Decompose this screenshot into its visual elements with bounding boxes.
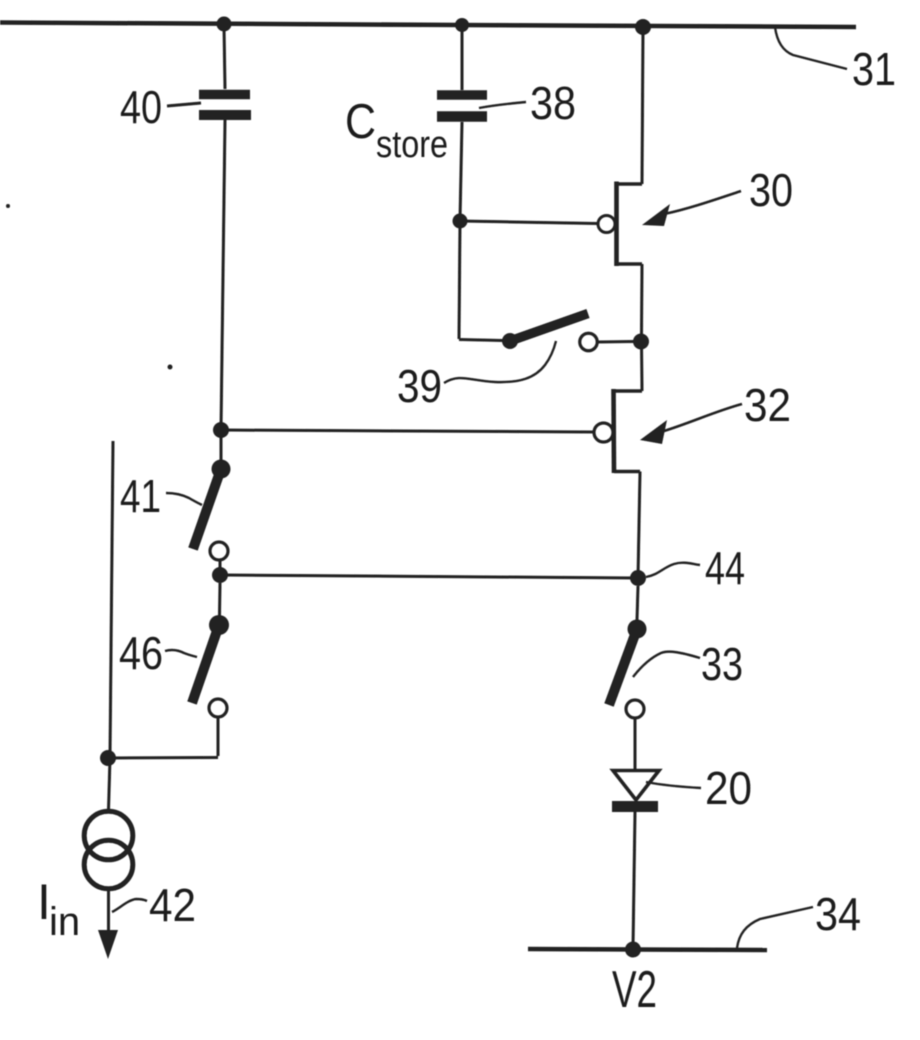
svg-text:38: 38	[530, 77, 576, 129]
svg-text:32: 32	[744, 379, 791, 431]
svg-text:30: 30	[749, 164, 793, 216]
svg-text:in: in	[49, 900, 80, 944]
svg-text:20: 20	[705, 762, 752, 814]
svg-text:V2: V2	[612, 961, 657, 1019]
svg-text:39: 39	[397, 360, 442, 412]
svg-text:31: 31	[852, 43, 896, 95]
svg-text:33: 33	[701, 638, 743, 690]
svg-text:41: 41	[120, 470, 161, 522]
svg-text:44: 44	[705, 542, 745, 594]
svg-text:46: 46	[119, 627, 163, 679]
svg-text:store: store	[376, 124, 448, 166]
svg-text:34: 34	[815, 888, 861, 940]
svg-text:42: 42	[149, 879, 196, 931]
svg-text:40: 40	[120, 81, 162, 133]
svg-text:C: C	[345, 95, 376, 149]
